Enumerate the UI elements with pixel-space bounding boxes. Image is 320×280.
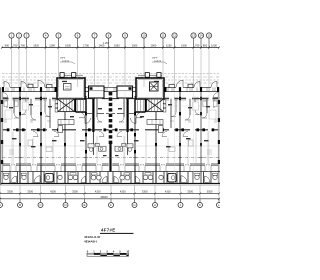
- scale bar black cells top row: [94, 253, 127, 255]
- svg-text:760: 760: [13, 43, 18, 47]
- svg-text:3300: 3300: [27, 189, 33, 193]
- top dimension text row: [5, 43, 218, 47]
- svg-text:4200: 4200: [50, 189, 56, 193]
- top grid verticals: [12, 48, 210, 88]
- svg-text:E: E: [84, 203, 86, 207]
- top bubble labels: [11, 34, 211, 38]
- svg-text:K: K: [199, 203, 201, 207]
- top grid bubbles: [9, 33, 212, 38]
- svg-text:C: C: [39, 203, 41, 207]
- scale bar mid line: [87, 254, 129, 256]
- svg-text:A: A: [0, 203, 1, 207]
- svg-text:3300: 3300: [72, 189, 78, 193]
- title underline: [100, 233, 134, 234]
- svg-text:36600: 36600: [100, 195, 108, 199]
- svg-text:1700: 1700: [83, 43, 89, 47]
- svg-text:11: 11: [162, 34, 165, 38]
- svg-text:4200: 4200: [95, 189, 101, 193]
- scale bar black cells bottom row: [100, 255, 128, 257]
- svg-text:1000: 1000: [211, 43, 217, 47]
- svg-text:3300: 3300: [7, 189, 13, 193]
- svg-text:15: 15: [207, 34, 211, 38]
- svg-text:4200: 4200: [165, 189, 171, 193]
- note text right: [152, 58, 162, 63]
- svg-text:12: 12: [173, 34, 177, 38]
- svg-text:JSFS: JSFS: [152, 58, 158, 60]
- top bubble leaders: [12, 38, 210, 47]
- note leader right: [152, 62, 167, 64]
- svg-text:4200: 4200: [120, 189, 126, 193]
- room label specks: [9, 104, 210, 156]
- svg-text:3300: 3300: [187, 189, 193, 193]
- top dimension ticks: [1, 47, 220, 49]
- svg-text:1900: 1900: [181, 43, 187, 47]
- svg-text:1900: 1900: [151, 43, 157, 47]
- svg-text:3300: 3300: [142, 189, 148, 193]
- bottom dimension line 2 (overall): [1, 198, 220, 200]
- svg-text:1900: 1900: [65, 43, 71, 47]
- svg-text:F: F: [110, 203, 112, 207]
- bottom bubble leaders: [0, 199, 219, 203]
- top dimension line: [2, 47, 219, 49]
- svg-text:800: 800: [203, 43, 208, 47]
- bottom dim1 ticks: [0, 193, 220, 195]
- scale bar outline: [87, 253, 129, 256]
- bottom bubble labels: [0, 203, 220, 207]
- bottom dim2 end ticks: [0, 198, 220, 200]
- right half of plan (mirrored): [111, 73, 221, 185]
- svg-text:G: G: [133, 203, 135, 207]
- svg-text:L: L: [218, 203, 220, 207]
- svg-text:760: 760: [195, 43, 200, 47]
- bottom grid extension lines: [0, 185, 219, 199]
- svg-text:10: 10: [142, 34, 146, 38]
- svg-text:14: 14: [199, 34, 203, 38]
- note text left: [60, 58, 70, 63]
- svg-text:1920: 1920: [33, 43, 39, 47]
- svg-text:4F7#E: 4F7#E: [101, 228, 115, 233]
- svg-text:1650: 1650: [114, 43, 120, 47]
- svg-text:1150: 1150: [166, 43, 172, 47]
- svg-text:D: D: [64, 203, 66, 207]
- svg-text:1280: 1280: [49, 43, 55, 47]
- bottom dim1 text: [7, 189, 213, 193]
- svg-text:760: 760: [21, 43, 26, 47]
- bottom grid bubbles: [0, 203, 222, 208]
- svg-text:JSFS: JSFS: [60, 58, 66, 60]
- bottom dimension line 1: [1, 193, 220, 195]
- note leader left: [60, 62, 75, 64]
- scale bar numbers: [87, 250, 130, 254]
- svg-text:H: H: [154, 203, 156, 207]
- svg-text:3300: 3300: [207, 189, 213, 193]
- svg-text:B: B: [19, 203, 21, 207]
- left half of plan: [0, 73, 110, 185]
- svg-text:13: 13: [192, 34, 196, 38]
- core B dark elevator block: [150, 82, 159, 91]
- grid verticals through plan (faint): [12, 92, 210, 183]
- svg-text:900: 900: [5, 43, 10, 47]
- svg-text:1.2M: 1.2M: [103, 42, 108, 45]
- svg-text:4EI#AB-I: 4EI#AB-I: [84, 239, 97, 243]
- svg-text:1900: 1900: [132, 43, 138, 47]
